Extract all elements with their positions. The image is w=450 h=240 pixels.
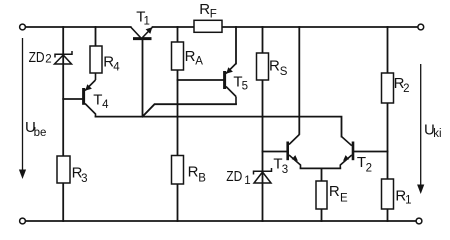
zener diode ZD1 <box>226 168 271 187</box>
svg-text:3: 3 <box>282 164 288 176</box>
svg-text:S: S <box>280 66 288 78</box>
svg-text:ki: ki <box>433 128 441 140</box>
wire RE to bottom rail <box>321 209 323 221</box>
svg-text:be: be <box>34 127 47 139</box>
resistor R1 <box>382 179 412 209</box>
resistor RF <box>194 1 222 32</box>
svg-text:1: 1 <box>244 175 250 187</box>
voltage arrow Uki <box>417 64 442 194</box>
resistor R4 <box>90 46 120 73</box>
wire T3 collector to top rail <box>298 27 300 134</box>
svg-text:A: A <box>195 55 203 67</box>
terminal output bottom <box>416 218 422 224</box>
resistor RS <box>257 53 288 80</box>
resistor RA <box>172 42 204 70</box>
svg-text:5: 5 <box>242 80 248 92</box>
wire top rail right segment <box>222 26 418 28</box>
wire T2 base to R2/R1 divider <box>354 151 387 153</box>
wire T5 collector to T1 base node <box>143 104 237 116</box>
wire emitters T3-T2 common <box>301 167 341 169</box>
wire ZD2/R3 branch vertical <box>62 27 64 156</box>
svg-text:R: R <box>185 48 196 65</box>
wire bottom rail <box>26 220 417 222</box>
svg-text:2: 2 <box>45 53 51 65</box>
svg-text:2: 2 <box>366 162 372 174</box>
svg-text:1: 1 <box>405 195 411 207</box>
wire top rail middle segment <box>153 26 194 28</box>
wire top rail left segment <box>26 26 131 28</box>
resistor R2 <box>382 73 410 103</box>
wire RB to bottom rail <box>177 184 179 221</box>
wire RS branch from top rail <box>262 27 264 53</box>
wire RS through ZD1 to bottom rail <box>262 80 264 221</box>
svg-text:R: R <box>199 1 210 18</box>
svg-text:3: 3 <box>81 173 87 185</box>
svg-text:ZD: ZD <box>226 168 242 185</box>
resistor RE <box>316 181 348 209</box>
wire RE branch <box>321 168 323 181</box>
wire long horizontal node (T4 collector to T2 collector) <box>96 117 342 137</box>
wire T1 base vertical <box>142 39 144 117</box>
svg-text:R: R <box>269 58 280 75</box>
voltage arrow Ube <box>19 38 46 179</box>
svg-text:R: R <box>188 164 199 181</box>
wire R4 branch from top rail <box>95 27 97 46</box>
transistor T5 <box>225 64 248 105</box>
terminal input bottom <box>20 218 26 224</box>
svg-text:T: T <box>93 92 102 109</box>
resistor R3 <box>57 156 88 185</box>
transistor T3 <box>273 135 300 176</box>
wire R1 to bottom rail <box>387 209 389 221</box>
svg-text:ZD: ZD <box>29 49 45 66</box>
wire T5 base from RA/RB divider <box>178 79 224 81</box>
svg-text:4: 4 <box>102 99 109 111</box>
wire T3 base from ZD1 node <box>263 151 287 153</box>
svg-text:2: 2 <box>403 83 409 95</box>
wire RA to RB vertical <box>177 70 179 156</box>
transistor T2 <box>340 137 372 175</box>
resistor RB <box>172 156 207 185</box>
terminal output top <box>418 24 424 30</box>
svg-text:1: 1 <box>144 16 150 28</box>
terminal input top <box>20 24 26 30</box>
svg-text:R: R <box>329 183 340 200</box>
svg-text:4: 4 <box>113 61 120 73</box>
wire RA branch from top rail <box>177 27 179 42</box>
zener diode ZD2 <box>29 49 72 66</box>
svg-text:B: B <box>198 173 206 185</box>
svg-text:E: E <box>340 193 348 205</box>
wire T4 base from zener node <box>63 98 82 100</box>
transistor T4 <box>84 73 110 117</box>
transistor T1 <box>131 8 153 38</box>
svg-text:F: F <box>210 9 217 21</box>
wire R2 to R1 vertical <box>387 103 389 179</box>
wire T5 emitter to top rail <box>235 27 237 64</box>
wire R2 branch from top rail <box>387 27 389 73</box>
